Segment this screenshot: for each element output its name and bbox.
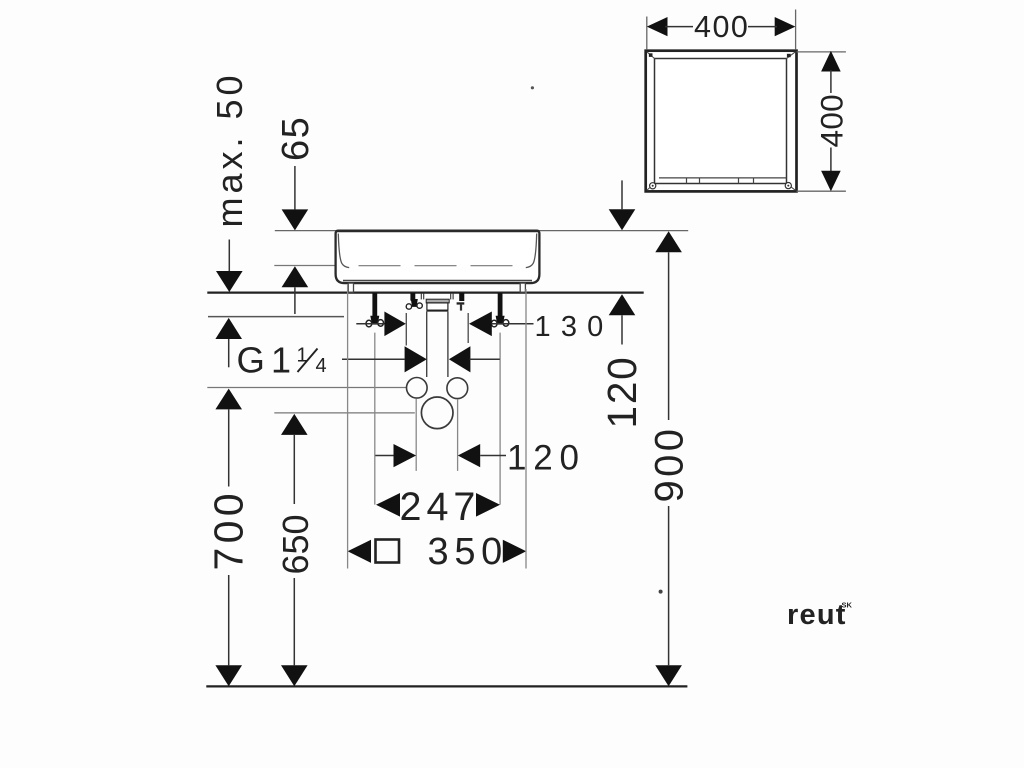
dimension 120 horizontal — [375, 439, 585, 478]
speck bottom — [659, 590, 663, 594]
water supply circle left — [407, 378, 428, 399]
dimension 120 vertical — [599, 180, 645, 428]
svg-text:SK: SK — [842, 601, 853, 610]
node: supply extension left — [415, 399, 417, 471]
dimension 700 — [205, 389, 251, 687]
square top view — [646, 51, 797, 192]
svg-text:350: 350 — [428, 531, 509, 573]
node: 130 extension line left — [405, 313, 407, 346]
node: basin-left extension line — [347, 284, 349, 569]
wire: floor line — [206, 685, 687, 687]
svg-text:65: 65 — [275, 116, 317, 161]
svg-text:G: G — [237, 340, 265, 381]
left mounting bolt with wing nut — [366, 293, 384, 505]
svg-text:130: 130 — [535, 311, 614, 343]
water supply circle right — [447, 378, 468, 399]
dimension 247 — [376, 485, 500, 529]
wire: basin-top extension line — [275, 230, 688, 232]
right mounting bolt with wing nut — [491, 293, 508, 505]
reut logo — [787, 599, 853, 631]
dimension 900 — [647, 231, 691, 686]
svg-text:900: 900 — [647, 426, 691, 503]
svg-text:650: 650 — [275, 514, 316, 574]
svg-text:400: 400 — [694, 10, 749, 44]
svg-text:120: 120 — [507, 439, 586, 478]
speck top — [531, 86, 534, 89]
dimension 130 — [356, 311, 613, 343]
dimension 650 — [275, 414, 316, 686]
wire: wall mounting line — [207, 292, 643, 294]
svg-text:4: 4 — [316, 355, 327, 377]
wire: water-supply level extension line — [207, 387, 406, 389]
dimension max. 50 — [209, 71, 250, 367]
drain circle — [421, 397, 453, 429]
wire: drain level extension line — [274, 412, 415, 414]
svg-text:700: 700 — [205, 489, 251, 570]
svg-text:400: 400 — [813, 94, 849, 147]
dimension 65 — [275, 116, 317, 314]
dimension 400 top — [647, 10, 796, 50]
wire: basin inner-bottom extension line (left) — [274, 265, 336, 267]
node: basin-right extension line — [525, 289, 527, 569]
dimension G 1 1/4 — [237, 340, 500, 381]
node: 130 extension line right — [467, 313, 469, 343]
wire: lower mounting level line — [208, 316, 344, 318]
svg-text:1: 1 — [271, 340, 291, 381]
svg-text:reut: reut — [787, 599, 847, 631]
washbasin front view — [336, 231, 540, 293]
dimension 350 with square symbol — [348, 531, 527, 573]
svg-text:max. 50: max. 50 — [209, 71, 250, 227]
drain fitting assembly — [406, 293, 464, 377]
svg-text:120: 120 — [599, 356, 645, 429]
svg-text:247: 247 — [400, 485, 481, 529]
dimension 400 right — [797, 51, 850, 191]
node: supply extension right — [457, 399, 459, 471]
